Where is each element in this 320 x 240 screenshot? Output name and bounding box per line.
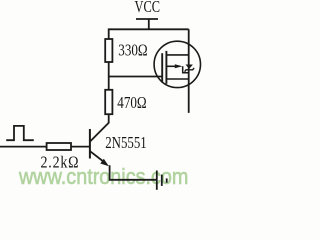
svg-text:2.2kΩ: 2.2kΩ (41, 153, 80, 171)
MOSFET U1 drain stub (166, 54, 188, 56)
wire base lead left (0, 146, 47, 148)
MOSFET U1 body stub (166, 65, 176, 67)
wire emitter drop (110, 165, 157, 180)
MOSFET U1 channel bar (165, 51, 167, 84)
MOSFET U1 gate bar (161, 53, 163, 82)
pulse input symbol (6, 126, 34, 140)
wire gate branch (109, 76, 162, 78)
svg-text:330Ω: 330Ω (118, 42, 147, 60)
svg-text:2N5551: 2N5551 (105, 135, 147, 153)
MOSFET U1 body arrowhead (175, 64, 183, 68)
wire 470 to collector (108, 114, 110, 123)
wire between resistors (108, 62, 110, 90)
MOSFET U1 source stub (166, 78, 188, 80)
ground (157, 171, 167, 190)
wire top rail (109, 29, 189, 39)
wire drain-source vertical (188, 29, 190, 113)
MOSFET U1 circle (154, 41, 200, 87)
resistor R2 470 (105, 90, 112, 114)
diode D1 body zener triangle (186, 65, 193, 69)
transistor Q1 2N5551 collector lead (90, 123, 109, 142)
resistor R1 330 (105, 39, 112, 62)
wire VCC stub (148, 19, 150, 30)
VCC terminal bar (136, 18, 158, 20)
transistor Q1 emitter arrowhead (100, 159, 109, 166)
wire base lead right (71, 146, 90, 148)
resistor R3 2.2k (47, 143, 71, 150)
diode D1 zener cathode bar (185, 68, 195, 72)
wire diode anode link (183, 66, 189, 73)
transistor Q1 emitter lead (90, 151, 105, 163)
transistor Q1 base bar (89, 129, 91, 159)
svg-text:470Ω: 470Ω (117, 95, 146, 113)
svg-text:VCC: VCC (135, 0, 160, 17)
